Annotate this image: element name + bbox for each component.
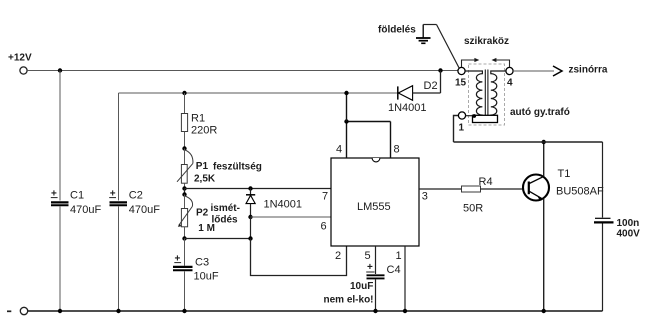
svg-text:nem el-ko!: nem el-ko!: [324, 295, 374, 306]
capacitor C1: [51, 189, 102, 217]
spark gap arrows (szikrakoz): [462, 36, 510, 67]
capacitor C4 10uF: [324, 262, 401, 306]
wire P1 top lead: [184, 149, 186, 165]
potentiometer P1 2,5K: [177, 150, 262, 185]
capacitor C3 10uF: [173, 254, 219, 283]
resistor R1 220R: [181, 113, 217, 137]
node bottom emitter: [542, 309, 546, 313]
node D2 top junction on +12V rail: [438, 68, 442, 72]
wire R1 top lead: [184, 93, 186, 114]
wire right loop upper: [602, 142, 604, 218]
svg-text:autó gy.trafó: autó gy.trafó: [510, 107, 570, 118]
ground (foldeles): [378, 25, 459, 69]
transformer T primary winding: [465, 71, 482, 116]
diode D2 1N4001: [388, 80, 441, 114]
wire P2 top lead: [184, 195, 186, 209]
svg-text:C4: C4: [387, 264, 401, 276]
svg-text:ismét-: ismét-: [211, 203, 240, 214]
wire R4 to base: [481, 188, 529, 190]
wire right loop lower: [602, 224, 604, 312]
node P1 bottom on pin7 line: [182, 186, 186, 190]
svg-text:3: 3: [422, 191, 428, 203]
wire R1 bottom lead: [184, 132, 186, 149]
wire to zsinorra: [513, 70, 554, 72]
node R1 top junction on rail2: [182, 91, 186, 95]
svg-text:15: 15: [455, 78, 467, 89]
terminal 4: [506, 67, 513, 88]
potentiometer P2 1M: [178, 196, 240, 234]
wire C3 top lead: [184, 239, 186, 266]
svg-text:szikraköz: szikraköz: [464, 36, 509, 47]
transformer dashed box: [469, 64, 505, 125]
svg-text:8: 8: [394, 144, 400, 156]
node bottom C2: [116, 309, 120, 313]
svg-text:220R: 220R: [191, 125, 217, 137]
svg-text:LM555: LM555: [357, 201, 391, 213]
terminal +12V: [8, 53, 32, 75]
pin 4: [336, 122, 347, 159]
svg-text:zsinórra: zsinórra: [569, 65, 608, 76]
wire C2 branch lower: [118, 206, 120, 311]
node bottom C4: [373, 309, 377, 313]
svg-text:4: 4: [507, 78, 513, 89]
node bottom pin1: [403, 309, 407, 313]
svg-text:1: 1: [459, 123, 465, 134]
svg-text:6: 6: [321, 220, 327, 232]
pin 5: [365, 246, 376, 274]
svg-text:1N4001: 1N4001: [264, 199, 303, 211]
wire pin4/8 feed to rail2: [346, 93, 348, 122]
node pin4/8 feed junction: [344, 119, 348, 123]
node P2 top junction: [182, 192, 186, 196]
pin 1: [396, 246, 406, 311]
terminal minus: [7, 307, 28, 314]
svg-text:50R: 50R: [463, 203, 483, 215]
transformer core: [485, 70, 488, 116]
wire P1 bottom lead: [184, 183, 186, 188]
svg-text:P1: P1: [196, 161, 209, 172]
wire top +12V rail: [27, 70, 458, 72]
wire terminal1 to winding: [466, 115, 474, 117]
svg-text:földelés: földelés: [378, 25, 416, 36]
arrow zsinorra: [553, 65, 608, 77]
wire pin6 line: [251, 216, 332, 218]
svg-text:10uF: 10uF: [350, 281, 373, 292]
wire D2 branch vertical: [440, 71, 442, 94]
node diode top junction on pin7 line: [248, 186, 252, 190]
svg-text:1 M: 1 M: [198, 223, 215, 234]
svg-text:4: 4: [336, 144, 342, 156]
wire diode column down: [250, 217, 252, 239]
svg-text:2,5K: 2,5K: [194, 174, 216, 185]
wire C4 bottom lead: [375, 279, 377, 311]
resistor R4 50R: [462, 176, 493, 215]
svg-text:R1: R1: [191, 113, 205, 125]
wire pin4-pin8 link: [347, 121, 391, 123]
pin 3: [419, 189, 462, 203]
svg-text:2: 2: [335, 250, 341, 262]
wire emitter down: [543, 199, 545, 311]
svg-text:feszültség: feszültség: [213, 162, 262, 173]
node bottom C1: [58, 309, 62, 313]
svg-text:470uF: 470uF: [129, 204, 160, 216]
wire P1-P2 link: [184, 189, 186, 195]
wire P2 bottom to diode column: [185, 238, 251, 240]
terminal 1: [458, 112, 465, 134]
svg-text:400V: 400V: [617, 229, 641, 240]
node C1 junction on +12V rail: [58, 68, 62, 72]
transistor Q1 T1 BU508AF: [523, 168, 604, 201]
svg-text:lődés: lődés: [212, 215, 239, 226]
svg-text:BU508AF: BU508AF: [556, 186, 604, 198]
wire collector rail up to trafo pin1: [454, 116, 459, 143]
transformer bottom link rectangle: [473, 115, 498, 122]
wire collector rail: [454, 141, 603, 143]
svg-text:P2: P2: [196, 208, 209, 219]
op-amp U1 LM555 body: [331, 158, 419, 246]
svg-text:+12V: +12V: [8, 53, 32, 64]
wire P2 bottom lead: [184, 227, 186, 239]
wire C1 branch upper: [59, 71, 61, 201]
wire bottom rail: [28, 310, 603, 312]
svg-text:10uF: 10uF: [194, 271, 219, 283]
svg-text:D2: D2: [424, 80, 438, 92]
svg-text:7: 7: [322, 191, 328, 203]
wire C3 bottom lead: [184, 271, 186, 311]
node bottom C3: [182, 309, 186, 313]
node R1/P1 junction: [182, 146, 186, 150]
svg-text:R4: R4: [479, 176, 493, 188]
node diode column / P2 line junction: [248, 236, 252, 240]
svg-text:T1: T1: [558, 168, 571, 180]
svg-text:100n: 100n: [617, 218, 640, 229]
node collector rail junction: [542, 140, 546, 144]
wire pin7 line: [185, 188, 332, 190]
node rail2 / pin4-8 junction: [344, 91, 348, 95]
svg-text:5: 5: [365, 250, 371, 262]
svg-text:470uF: 470uF: [70, 204, 101, 216]
diode 1N4001 (vertical): [246, 189, 302, 218]
svg-text:+: +: [367, 262, 373, 273]
pin 8: [391, 122, 400, 159]
svg-text:C1: C1: [70, 190, 84, 202]
transformer T secondary winding: [491, 71, 506, 116]
svg-text:1N4001: 1N4001: [388, 102, 427, 114]
node diode bottom / pin6 junction: [248, 215, 252, 219]
node winding bottom junction: [472, 114, 476, 118]
capacitor 100n 400V: [594, 218, 640, 240]
terminal 15: [455, 67, 467, 88]
wire collector up: [543, 142, 545, 176]
wire rail2 horizontal: [119, 92, 398, 94]
node P2 bottom junction: [182, 236, 186, 240]
svg-text:1: 1: [396, 250, 402, 262]
svg-text:C2: C2: [129, 190, 143, 202]
wire C2/rail2 corner vertical: [118, 93, 120, 201]
svg-text:C3: C3: [195, 257, 209, 269]
wire C1 branch lower: [59, 206, 61, 311]
wire diode column to pin2 elbow: [251, 239, 347, 276]
capacitor C2: [109, 189, 160, 217]
